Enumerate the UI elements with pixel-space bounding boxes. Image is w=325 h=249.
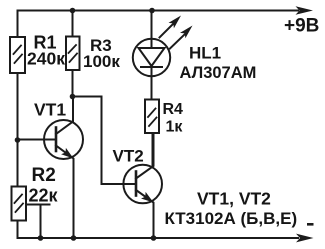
- svg-text:+9В: +9В: [284, 16, 319, 37]
- svg-text:100к: 100к: [83, 52, 120, 71]
- svg-text:R2: R2: [32, 165, 56, 186]
- svg-text:240к: 240к: [27, 49, 65, 69]
- svg-text:R4: R4: [163, 101, 184, 118]
- svg-text:22к: 22к: [29, 186, 59, 206]
- svg-text:VT1: VT1: [34, 100, 66, 120]
- svg-text:КТ3102А (Б,В,Е): КТ3102А (Б,В,Е): [165, 209, 298, 228]
- svg-text:1к: 1к: [166, 119, 184, 136]
- svg-text:VT2: VT2: [113, 147, 144, 166]
- svg-text:АЛ307АМ: АЛ307АМ: [180, 64, 257, 82]
- svg-text:HL1: HL1: [189, 44, 221, 63]
- svg-text:VT1, VT2: VT1, VT2: [197, 189, 271, 209]
